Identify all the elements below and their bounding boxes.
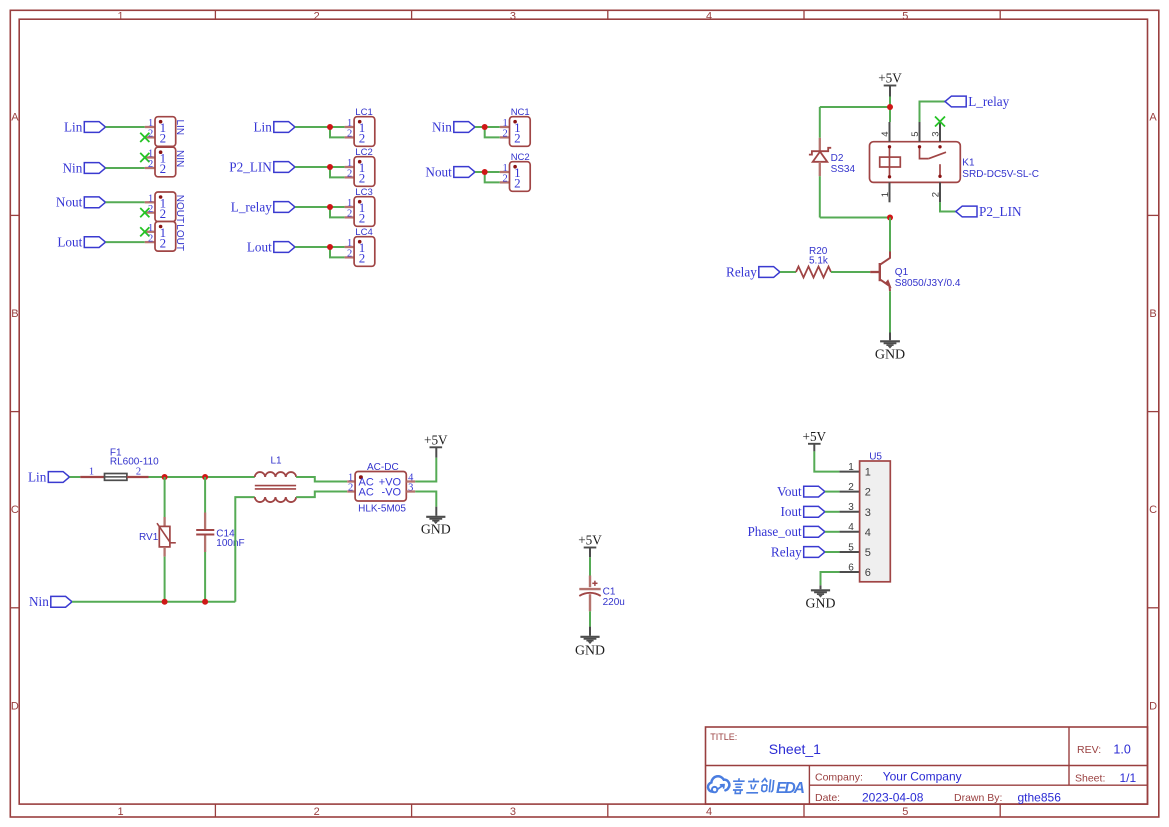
svg-text:AC: AC	[359, 487, 374, 499]
fuse F1 pin1 stub	[80, 476, 104, 478]
junction on P2_LIN wire	[327, 164, 333, 170]
svg-text:Nin: Nin	[432, 119, 452, 134]
svg-text:1: 1	[117, 11, 123, 23]
wire Relay flag to R20	[780, 271, 796, 273]
svg-text:6: 6	[848, 562, 854, 573]
svg-text:2: 2	[314, 11, 320, 23]
connector LC3 pin stubs	[345, 206, 355, 208]
resistor R20 zigzag	[796, 267, 831, 278]
svg-text:1: 1	[502, 118, 507, 129]
svg-text:2: 2	[359, 171, 366, 186]
svg-text:-VO: -VO	[382, 487, 402, 499]
relay K1 body	[870, 142, 961, 183]
relay K1 pin 3 stub	[939, 122, 941, 142]
inductor L1 core lines	[255, 485, 296, 487]
wire D2 bottom to node	[820, 217, 890, 219]
no-connect X on LIN pin 2	[140, 133, 149, 142]
net flag L_relay (to LC3)	[274, 202, 295, 213]
svg-text:4: 4	[865, 527, 871, 539]
svg-text:NIN: NIN	[174, 150, 185, 167]
svg-text:Sheet:: Sheet:	[1075, 773, 1105, 785]
svg-text:4: 4	[706, 806, 712, 818]
net flag Lout (to LC4)	[274, 242, 295, 253]
capacitor C14 bottom stub	[204, 536, 206, 553]
no-connect X on LOUT pin 1	[140, 227, 149, 236]
svg-text:3: 3	[510, 11, 516, 23]
connector NIN	[155, 147, 176, 177]
svg-text:2: 2	[359, 211, 366, 226]
svg-text:B: B	[1149, 308, 1156, 320]
svg-text:2: 2	[148, 159, 153, 170]
wire R20 to Q1 base	[831, 271, 870, 273]
connector NC1 pin stubs	[500, 126, 510, 128]
svg-text:2: 2	[148, 204, 153, 215]
svg-text:LIN: LIN	[174, 120, 185, 136]
relay K1 pin 2 stub	[939, 182, 941, 202]
svg-text:Your Company: Your Company	[883, 770, 962, 784]
wire C14 top	[204, 477, 206, 513]
svg-text:1: 1	[117, 806, 123, 818]
ground (AC-DC)	[426, 516, 445, 518]
gnd stub (C1)	[589, 627, 591, 636]
varistor RV1 body	[159, 526, 170, 547]
logo cloud icon	[708, 776, 729, 792]
connector LIN	[155, 117, 176, 147]
junction node top	[887, 104, 893, 110]
logo chinese characters	[732, 778, 774, 793]
svg-text:4: 4	[706, 11, 712, 23]
svg-text:LC3: LC3	[355, 187, 372, 198]
diode D2 triangle	[813, 152, 828, 162]
svg-text:2: 2	[160, 161, 167, 176]
svg-text:C1: C1	[603, 587, 616, 598]
wire Nout to NOUT pin 1	[106, 201, 145, 203]
AC-DC module body	[355, 472, 406, 502]
wire RV1 top	[164, 477, 166, 517]
connector LC2 pin stubs	[345, 166, 355, 168]
varistor RV1 bottom stub	[163, 547, 165, 557]
svg-text:LC2: LC2	[355, 147, 372, 158]
svg-text:L1: L1	[271, 456, 283, 467]
svg-text:2: 2	[148, 233, 153, 244]
svg-text:Lin: Lin	[253, 119, 272, 134]
junction node bottom	[887, 215, 893, 221]
svg-text:2: 2	[160, 131, 167, 146]
net flag Nin (to NC1)	[454, 122, 475, 133]
transistor Q1 base bar	[879, 263, 881, 281]
diode D2 bottom wire	[819, 176, 821, 217]
relay K1 contact pin2 lead	[939, 164, 941, 176]
svg-text:2: 2	[930, 192, 941, 197]
inductor L1 bottom winding	[255, 497, 296, 502]
svg-text:S8050/J3Y/0.4: S8050/J3Y/0.4	[895, 278, 961, 289]
wire +VO to +5V	[415, 458, 436, 482]
AC-DC module pin1 stub	[347, 480, 355, 482]
svg-text:AC-DC: AC-DC	[367, 462, 399, 473]
svg-text:2: 2	[160, 206, 167, 221]
svg-text:1: 1	[865, 467, 871, 479]
svg-text:D2: D2	[831, 153, 844, 164]
svg-text:3: 3	[865, 507, 871, 519]
transistor Q1 base stub	[870, 271, 879, 273]
relay K1 contact blade	[929, 152, 946, 158]
capacitor C1 negative stub	[589, 594, 591, 611]
svg-text:2: 2	[347, 249, 352, 260]
relay K1 contact common pin5	[920, 147, 929, 159]
wire F1 to L1	[149, 476, 255, 478]
svg-text:1: 1	[880, 192, 891, 197]
wire relay pin5 to L_relay	[920, 102, 946, 123]
net flag Nout (top-left)	[84, 197, 105, 208]
svg-text:3: 3	[510, 806, 516, 818]
capacitor C1 plus sign	[592, 582, 597, 584]
net flag Lout (top-left)	[84, 237, 105, 248]
net flag Relay (base drive)	[759, 267, 780, 278]
wire Nout to NC2	[475, 171, 500, 173]
svg-text:2: 2	[160, 235, 167, 250]
svg-text:6: 6	[865, 567, 871, 579]
svg-text:Lout: Lout	[57, 235, 82, 250]
connector LC1 pin stubs	[345, 126, 355, 128]
column ticks bottom	[214, 804, 216, 817]
svg-text:5.1k: 5.1k	[809, 255, 829, 266]
svg-text:2: 2	[314, 806, 320, 818]
svg-text:1/1: 1/1	[1120, 771, 1137, 785]
svg-text:Company:: Company:	[815, 771, 863, 783]
svg-text:Nout: Nout	[56, 195, 83, 210]
svg-text:GND: GND	[421, 521, 451, 536]
capacitor C1 positive stub	[589, 576, 591, 588]
inductor L1 top winding	[255, 472, 296, 477]
svg-text:5: 5	[848, 542, 854, 553]
relay K1 pin 1 stub	[889, 182, 891, 202]
svg-text:4: 4	[880, 132, 891, 137]
svg-text:C: C	[11, 504, 19, 516]
svg-text:2: 2	[865, 487, 871, 499]
net flag Lin (top-left)	[84, 122, 105, 133]
wire L1 bottom to U pin2	[296, 492, 347, 498]
svg-text:P2_LIN: P2_LIN	[229, 159, 272, 174]
svg-text:2: 2	[514, 176, 521, 191]
wire L_relay to LC3	[295, 206, 345, 208]
wire RV1 bottom	[164, 557, 166, 602]
net flag Vout	[804, 486, 825, 497]
svg-text:U5: U5	[869, 452, 882, 463]
svg-text:REV:: REV:	[1077, 744, 1101, 756]
connector LC1	[354, 117, 375, 147]
wire +5V to U5 pin1	[814, 451, 839, 471]
wire Lout to LOUT pin 2	[106, 241, 145, 243]
svg-text:1.0: 1.0	[1113, 743, 1130, 757]
connector LOUT pin1 stub	[146, 231, 155, 233]
connector LC4	[354, 237, 375, 267]
wire -VO to GND	[415, 492, 436, 507]
wire Relay to U5 pin5	[825, 551, 840, 553]
capacitor C1 curved plate	[579, 593, 600, 596]
svg-text:2: 2	[502, 174, 507, 185]
svg-text:L_relay: L_relay	[968, 94, 1009, 109]
connector U5 pin stubs	[839, 471, 859, 473]
junction at C14 top	[202, 474, 208, 480]
svg-text:GND: GND	[875, 348, 905, 363]
svg-text:TITLE:: TITLE:	[710, 732, 737, 742]
wire Q1 emitter to GND	[889, 291, 891, 332]
svg-text:K1: K1	[962, 157, 975, 168]
svg-text:NC2: NC2	[511, 152, 530, 163]
net flag Nout (to NC2)	[454, 167, 475, 178]
svg-text:100nF: 100nF	[216, 538, 244, 549]
wire Iout to U5 pin3	[825, 511, 840, 513]
net flag P2_LIN (to LC2)	[274, 162, 295, 173]
connector NOUT pin1 stub	[145, 201, 155, 203]
row ticks left	[10, 214, 19, 216]
diode D2 schottky cathode bar	[809, 148, 831, 155]
svg-text:RL600-110: RL600-110	[110, 457, 159, 468]
AC-DC module pin3/4 stubs	[406, 480, 415, 482]
net flag Nin (power input)	[51, 596, 72, 607]
svg-text:1: 1	[347, 238, 352, 249]
net flag Lin (to LC1)	[274, 122, 295, 133]
wire +5V stub	[889, 86, 891, 97]
relay K1 coil	[889, 147, 891, 177]
wire +5V to C1	[589, 557, 591, 575]
diode D2 top wire	[819, 107, 821, 138]
svg-text:1: 1	[502, 163, 507, 174]
connector NC2	[510, 162, 531, 192]
wire node to D2 top	[820, 106, 890, 108]
connector LOUT pin2 stub	[145, 241, 155, 243]
svg-text:4: 4	[848, 522, 854, 533]
junction at RV1 top	[162, 474, 168, 480]
svg-text:3: 3	[930, 132, 941, 137]
junction RV1 bottom	[162, 599, 168, 605]
title block outline	[706, 727, 1148, 804]
svg-text:2: 2	[347, 209, 352, 220]
svg-text:Date:: Date:	[815, 792, 840, 804]
svg-text:5: 5	[902, 11, 908, 23]
wire Lin to LIN pin 1	[106, 126, 145, 128]
svg-text:2: 2	[848, 482, 854, 493]
title block dividers	[706, 765, 1148, 767]
svg-text:2: 2	[359, 131, 366, 146]
junction on Nout wire	[482, 169, 488, 175]
wire relay pin2 to P2_LIN	[940, 202, 956, 211]
svg-text:D: D	[11, 700, 19, 712]
svg-text:C: C	[1149, 504, 1157, 516]
gnd stub (Q1)	[889, 333, 891, 341]
relay K1 pin 4 stub	[889, 122, 891, 142]
ground (Q1)	[880, 340, 900, 342]
svg-text:HLK-5M05: HLK-5M05	[358, 503, 406, 514]
capacitor C14 plates	[196, 529, 214, 531]
svg-text:NC1: NC1	[511, 107, 530, 118]
wire C14 bottom	[204, 552, 206, 602]
capacitor C14 top stub	[204, 513, 206, 530]
no-connect X on relay pin 3	[935, 117, 945, 127]
transistor Q1 emitter with arrow	[880, 279, 890, 291]
diode D2 anode stub	[819, 162, 821, 176]
fuse F1 body	[105, 474, 127, 481]
gnd stub (U5)	[820, 585, 822, 589]
net flag P2_LIN	[956, 206, 977, 217]
svg-text:2: 2	[148, 129, 153, 140]
net flag Phase_out	[804, 526, 825, 537]
svg-text:Vout: Vout	[777, 484, 802, 499]
wire Lin to LC1	[295, 126, 345, 128]
ground (U5)	[811, 589, 830, 591]
wire Lin to F1	[70, 476, 81, 478]
net flag Relay (U5)	[804, 547, 825, 558]
svg-text:Phase_out: Phase_out	[747, 524, 802, 539]
+5V stub (C1)	[589, 548, 591, 558]
svg-text:+5V: +5V	[578, 533, 602, 548]
wire +5V to node	[889, 97, 891, 108]
svg-text:5: 5	[865, 547, 871, 559]
connector U5 body	[860, 461, 891, 582]
svg-text:+5V: +5V	[878, 71, 902, 86]
row ticks right	[1148, 214, 1159, 216]
svg-text:2: 2	[136, 467, 141, 478]
svg-text:LC4: LC4	[355, 227, 372, 238]
svg-text:5: 5	[902, 806, 908, 818]
wire Phase_out to U5 pin4	[825, 531, 840, 533]
svg-text:B: B	[11, 308, 18, 320]
svg-text:1: 1	[148, 149, 153, 160]
svg-text:LC1: LC1	[355, 107, 372, 118]
svg-text:Relay: Relay	[726, 264, 757, 279]
svg-text:1: 1	[347, 158, 352, 169]
svg-text:2023-04-08: 2023-04-08	[862, 791, 924, 805]
svg-text:Iout: Iout	[780, 504, 802, 519]
svg-text:220u: 220u	[603, 597, 625, 608]
gnd stub (AC-DC)	[435, 507, 437, 516]
svg-text:2: 2	[514, 131, 521, 146]
svg-text:GND: GND	[575, 642, 605, 657]
svg-text:1: 1	[848, 462, 854, 473]
wire Nin bottom rail	[72, 601, 235, 603]
svg-text:1: 1	[347, 118, 352, 129]
junction on Nin wire	[482, 124, 488, 130]
connector NIN pin1 stub	[146, 156, 155, 158]
svg-text:Nout: Nout	[425, 164, 452, 179]
svg-text:Lin: Lin	[28, 469, 47, 484]
wire Vout to U5 pin2	[825, 491, 840, 493]
svg-text:1: 1	[89, 467, 94, 478]
wire node to Q1 collector	[889, 218, 891, 252]
svg-text:SS34: SS34	[831, 164, 856, 175]
svg-text:Lout: Lout	[247, 239, 272, 254]
connector LC3	[354, 197, 375, 227]
svg-text:A: A	[11, 112, 19, 124]
no-connect X on NOUT pin 2	[140, 208, 149, 217]
junction C14 bottom	[202, 599, 208, 605]
svg-text:5: 5	[910, 132, 921, 137]
svg-text:NOUT: NOUT	[174, 195, 185, 223]
connector LIN pin2 stub	[146, 136, 155, 138]
svg-text:P2_LIN: P2_LIN	[979, 204, 1022, 219]
junction on L_relay wire	[327, 204, 333, 210]
svg-text:2: 2	[502, 129, 507, 140]
no-connect X on NIN pin 1	[140, 153, 149, 162]
svg-text:D: D	[1149, 700, 1157, 712]
connector NOUT pin2 stub	[146, 211, 155, 213]
wire P2_LIN to LC2	[295, 166, 345, 168]
svg-text:Sheet_1: Sheet_1	[769, 741, 821, 757]
wire Nin rail up to L1	[235, 497, 255, 602]
relay K1 inner pin dots	[888, 145, 891, 148]
connector LIN pin1 stub	[145, 126, 155, 128]
svg-text:gthe856: gthe856	[1018, 791, 1062, 805]
net flag Nin (top-left)	[84, 163, 105, 174]
svg-text:Q1: Q1	[895, 267, 909, 278]
svg-text:EDA: EDA	[776, 780, 805, 797]
AC-DC module pin2 stub	[347, 490, 355, 492]
svg-text:GND: GND	[806, 595, 836, 610]
svg-text:L_relay: L_relay	[231, 199, 272, 214]
column ticks top	[214, 10, 216, 19]
svg-text:1: 1	[347, 198, 352, 209]
svg-text:2: 2	[347, 129, 352, 140]
svg-text:A: A	[1149, 112, 1157, 124]
svg-text:2: 2	[348, 483, 353, 494]
svg-text:Lin: Lin	[64, 119, 83, 134]
net flag Lin (power input)	[48, 472, 69, 483]
svg-text:3: 3	[848, 502, 854, 513]
svg-text:+5V: +5V	[803, 429, 827, 444]
connector LOUT	[155, 222, 176, 252]
wire C1 to GND	[589, 611, 591, 626]
svg-text:2: 2	[347, 169, 352, 180]
transistor Q1 collector	[880, 252, 890, 265]
ground (C1)	[580, 636, 599, 638]
svg-text:Relay: Relay	[771, 544, 802, 559]
wire Lout to LC4	[295, 246, 345, 248]
wire L1 top to U pin1	[296, 477, 347, 482]
svg-text:+5V: +5V	[424, 432, 448, 447]
connector NIN pin2 stub	[145, 167, 155, 169]
wire U5 pin6 to GND	[821, 572, 840, 585]
svg-text:LOUT: LOUT	[174, 224, 185, 251]
svg-text:Drawn By:: Drawn By:	[954, 792, 1002, 804]
+5V stub (U5)	[813, 444, 815, 452]
connector NC1	[510, 117, 531, 147]
svg-text:SRD-DC5V-SL-C: SRD-DC5V-SL-C	[962, 169, 1039, 180]
net flag L_relay	[945, 96, 966, 107]
wire node to relay pin 4	[889, 107, 891, 122]
connector NC2 pin stubs	[500, 171, 510, 173]
svg-text:Nin: Nin	[29, 594, 49, 609]
wire Nin to NIN pin 2	[106, 167, 145, 169]
relay K1 pin 5 stub	[919, 122, 921, 142]
wire Nin to NC1	[475, 126, 500, 128]
fuse F1 pin2 stub	[127, 476, 149, 478]
junction on Lin wire	[327, 124, 333, 130]
diode D2 cathode stub	[819, 138, 821, 151]
junction on Lout wire	[327, 244, 333, 250]
connector LC4 pin stubs	[345, 246, 355, 248]
+5V stub (AC-DC)	[435, 447, 437, 457]
svg-text:2: 2	[359, 251, 366, 266]
svg-text:Nin: Nin	[63, 160, 83, 175]
connector NOUT	[155, 192, 176, 222]
svg-text:RV1: RV1	[139, 532, 159, 543]
svg-text:1: 1	[148, 118, 153, 129]
varistor RV1 top stub	[163, 517, 165, 526]
capacitor C1 top plate	[579, 588, 600, 590]
net flag Iout	[804, 506, 825, 517]
connector LC2	[354, 157, 375, 187]
